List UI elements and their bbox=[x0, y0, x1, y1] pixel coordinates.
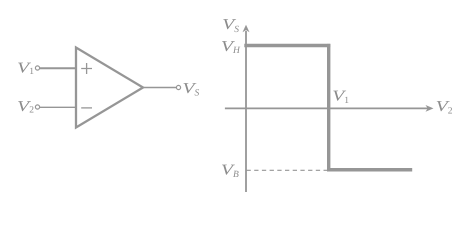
op-amp U1 noninverting + sign bbox=[81, 63, 92, 74]
transfer curve low level at VB bbox=[327, 168, 412, 171]
svg-text:VS: VS bbox=[183, 81, 200, 99]
terminal VS bbox=[176, 85, 180, 89]
wire V2 terminal to op-amp - input bbox=[40, 106, 75, 108]
dashed guide line at VB level bbox=[247, 169, 328, 171]
graph horizontal axis arrowhead bbox=[426, 105, 434, 112]
graph vertical axis arrowhead bbox=[243, 25, 250, 32]
terminal V2 bbox=[35, 105, 39, 109]
svg-text:V1: V1 bbox=[332, 88, 349, 106]
graph vertical axis (VS axis) bbox=[245, 31, 247, 192]
svg-text:V2: V2 bbox=[17, 99, 34, 116]
op-amp U1 body bbox=[76, 48, 143, 128]
terminal V1 bbox=[35, 66, 39, 70]
transfer curve step at V1 bbox=[327, 44, 330, 171]
svg-text:VH: VH bbox=[221, 39, 241, 56]
graph horizontal axis (V2 axis) bbox=[225, 107, 428, 109]
svg-text:V2: V2 bbox=[436, 99, 453, 117]
op-amp U1 inverting - sign bbox=[81, 107, 92, 109]
wire op-amp output to VS terminal bbox=[143, 87, 177, 89]
wire V1 terminal to op-amp + input bbox=[40, 67, 75, 69]
transfer curve high level at VH bbox=[244, 44, 330, 47]
svg-text:VS: VS bbox=[222, 17, 239, 35]
svg-text:VB: VB bbox=[221, 162, 239, 180]
svg-text:V1: V1 bbox=[17, 61, 34, 78]
